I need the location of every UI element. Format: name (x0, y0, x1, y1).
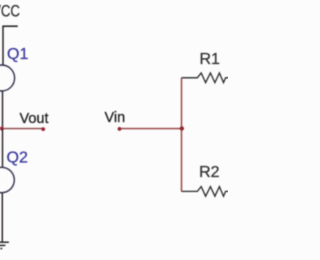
transistor Q1 (0, 65, 15, 91)
wire-end dot Vin (118, 127, 122, 131)
svg-text:Vout: Vout (20, 111, 49, 127)
junction on left vertical at Vout (0, 127, 4, 131)
svg-text:Q2: Q2 (7, 149, 28, 166)
resistor R2 (182, 187, 230, 197)
svg-text:R1: R1 (200, 51, 221, 68)
ground (0, 242, 9, 248)
wire Q1 emitter to Vout node (2, 91, 4, 129)
wire Q2 emitter to ground (1, 193, 3, 242)
svg-text:VCC: VCC (0, 2, 20, 21)
wire VCC to Q1 collector (2, 26, 4, 65)
wire Vout stub (2, 128, 43, 130)
svg-text:R2: R2 (199, 164, 220, 181)
wire Vin to junction (119, 128, 182, 130)
transistor Q2 (0, 167, 14, 192)
junction at R1/R2 split (180, 126, 184, 130)
resistor R1 (182, 73, 230, 83)
wire junction up to R1 and down to R2 (181, 78, 183, 192)
power VCC bar (2, 25, 17, 27)
svg-text:Q1: Q1 (7, 46, 28, 63)
svg-text:Vin: Vin (105, 110, 126, 126)
wire-end dot Vout (41, 127, 45, 131)
wire Vout node to Q2 collector (2, 129, 4, 168)
